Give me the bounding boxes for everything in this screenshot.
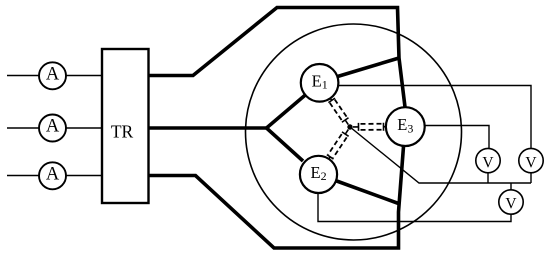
wire phase 2 input (7, 127, 102, 129)
wire phase 1 input (7, 75, 102, 77)
svg-text:2: 2 (321, 169, 327, 183)
wire V3 top stub (510, 183, 512, 190)
wire busbar phase2 TR to fork (149, 126, 267, 130)
svg-text:A: A (46, 165, 60, 185)
svg-text:1: 1 (322, 78, 328, 92)
arc (dashed) E1 to bath (327, 96, 352, 127)
svg-text:V: V (482, 154, 494, 171)
wire busbar phase3 TR to bottom and up to E3 (149, 147, 404, 249)
furnace circle (246, 24, 462, 240)
junction node N (bath) (347, 124, 352, 129)
wire V2 bottom stub (530, 173, 532, 183)
voltmeter V2 (519, 148, 543, 172)
wire E3 to voltmeter V1 (425, 126, 490, 149)
wire busbar fork to E2 (267, 128, 304, 161)
electrode E3 (386, 107, 425, 146)
ammeter A1 (39, 62, 66, 89)
voltmeter V3 (499, 190, 523, 214)
svg-text:TR: TR (111, 122, 134, 142)
wire busbar branch E2 to bottom riser (337, 181, 399, 204)
ammeter A2 (39, 115, 66, 142)
wire phase 3 input (7, 175, 102, 177)
svg-text:E: E (397, 115, 407, 134)
svg-text:A: A (46, 65, 60, 85)
wire V1 bottom stub (487, 173, 489, 184)
wire V3 bottom to E2 (318, 194, 511, 222)
svg-text:E: E (312, 71, 322, 90)
arc (dashed) E2 to bath (325, 127, 351, 161)
wire busbar fork to E1 (267, 95, 306, 128)
svg-text:A: A (46, 117, 60, 137)
electrode E1 (301, 64, 339, 102)
svg-text:E: E (311, 163, 321, 182)
voltmeter V1 (476, 148, 500, 172)
svg-text:V: V (505, 196, 517, 213)
wire E1 to voltmeter V2 (338, 86, 531, 149)
ammeter A3 (39, 162, 66, 189)
electrode E2 (300, 156, 337, 193)
svg-text:V: V (525, 154, 537, 171)
wire busbar phase1 TR to top and down to E3 (149, 8, 405, 108)
transformer TR (102, 49, 149, 203)
svg-text:3: 3 (407, 121, 413, 135)
arc (dashed) E3 to bath (353, 123, 386, 131)
wire bath node N to voltmeter bottoms (350, 127, 531, 183)
wire busbar branch junction to E1 (338, 58, 400, 77)
